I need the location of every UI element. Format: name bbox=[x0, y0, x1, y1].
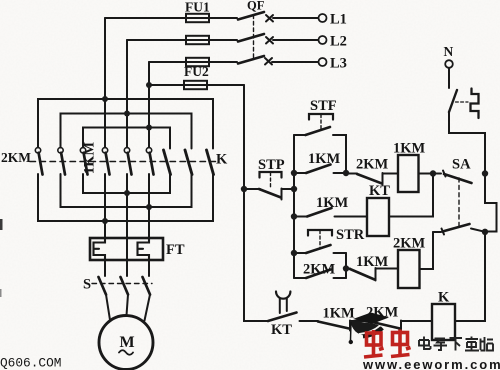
coil 2KM bbox=[398, 250, 420, 288]
svg-text:www.eeworm.com: www.eeworm.com bbox=[362, 357, 500, 370]
selector SA contact 1 blade bbox=[433, 173, 441, 175]
switch S blade A bbox=[99, 277, 107, 295]
svg-text:1KM: 1KM bbox=[308, 151, 341, 167]
wire FT to switch S (A) bbox=[104, 260, 106, 276]
button STF cap bbox=[309, 114, 333, 120]
node FU2 tap bbox=[146, 82, 152, 88]
switch S blade C bbox=[143, 277, 151, 295]
svg-text:2KM: 2KM bbox=[356, 157, 389, 173]
control left rail bbox=[244, 189, 268, 321]
row3 bottom branch (2KM self-hold) bbox=[294, 277, 306, 279]
node left rail STP bbox=[241, 186, 247, 192]
row1 top branch wire bbox=[294, 134, 306, 136]
contactor contact 2 (2KM) bbox=[58, 148, 63, 153]
svg-text:M: M bbox=[120, 334, 135, 351]
switch (N branch) operator symbol bbox=[471, 89, 479, 119]
wire phase A to FT bbox=[104, 174, 106, 238]
FT heater element (phase A) bbox=[94, 238, 106, 260]
node row1 parallel right bbox=[343, 170, 349, 176]
row2 wire from bus bbox=[294, 216, 307, 218]
selector SA linkage dashed bbox=[458, 178, 460, 226]
wire phase L1 line bbox=[105, 17, 237, 19]
wire phase L2 line bbox=[127, 39, 237, 41]
watermark graduation cap bbox=[349, 313, 389, 345]
wire phase A vertical bbox=[104, 18, 106, 148]
wire row3 output bbox=[346, 268, 350, 270]
wire inner bottom loop (contact3 to contact7) bbox=[83, 174, 170, 193]
terminal L2 bbox=[319, 36, 327, 44]
svg-text:2KM: 2KM bbox=[1, 150, 31, 165]
contactor contact 1 (2KM) bbox=[35, 148, 40, 153]
node right bus SA2 bbox=[482, 229, 488, 235]
switch S blade B bbox=[121, 277, 129, 295]
svg-text:2KM: 2KM bbox=[393, 236, 426, 252]
switch (N branch) linkage dashed bbox=[456, 101, 469, 103]
wire S to motor (C) bbox=[145, 295, 151, 321]
watermark chongchong character 2 bbox=[391, 330, 411, 357]
contact 1KM NC (row3) bbox=[350, 269, 375, 280]
contactor contact 3 (2KM) bbox=[80, 148, 85, 153]
wire phase C vertical bbox=[148, 62, 150, 148]
svg-text:FU2: FU2 bbox=[184, 64, 209, 79]
button STP NC contact bbox=[244, 188, 260, 190]
fuse FU1 (phase 2) bbox=[186, 36, 209, 44]
wire FT to switch S (B) bbox=[126, 260, 128, 276]
svg-text:Q606.COM: Q606.COM bbox=[0, 356, 61, 370]
contact 1KM (row2 NO) bbox=[307, 208, 332, 217]
node phase B / inner bottom loop bbox=[124, 190, 130, 196]
wire FU2 branch bbox=[149, 84, 244, 86]
terminal N bbox=[445, 60, 453, 68]
svg-text:1KM: 1KM bbox=[393, 141, 426, 157]
switch S linkage dashed bbox=[92, 283, 152, 285]
bottom rail wire bbox=[300, 320, 319, 322]
svg-text:STR: STR bbox=[336, 227, 365, 243]
contactor contact 9 (K) bbox=[207, 150, 214, 175]
contact 2KM NC (bottom row) bbox=[370, 322, 400, 329]
contactor contact 4 (1KM) bbox=[102, 148, 107, 153]
node phase A / outer loop bbox=[102, 96, 108, 102]
contact 2KM NC (row1) bbox=[346, 173, 357, 175]
fuse FU2 bbox=[184, 81, 207, 89]
wire 2KM coil output bbox=[420, 232, 434, 269]
svg-text:L1: L1 bbox=[330, 12, 347, 28]
wire middle top loop (contact2 to contact8) bbox=[61, 114, 192, 149]
wire to L2 bbox=[273, 39, 319, 41]
breaker QF pole 3 cross bbox=[265, 58, 272, 65]
svg-text:STF: STF bbox=[310, 98, 337, 114]
breaker QF pole 1 cross bbox=[266, 15, 273, 22]
contact 1KM NC (bottom row) bbox=[318, 322, 349, 329]
selector SA contact 2 blade bbox=[433, 231, 441, 233]
button STP cap bbox=[260, 172, 282, 178]
mechanical linkage dashed (main contacts) bbox=[30, 161, 218, 163]
breaker QF pole 3 blade bbox=[238, 56, 264, 64]
svg-text:L3: L3 bbox=[330, 56, 347, 72]
node phase A / outer bottom loop bbox=[102, 218, 108, 224]
svg-text:SA: SA bbox=[452, 157, 471, 173]
button STR contact blade bbox=[306, 245, 331, 253]
node row3 output bbox=[343, 265, 349, 271]
row3 block right vertical bbox=[345, 253, 347, 278]
switch (N branch) blade bbox=[449, 90, 457, 112]
svg-text:KT: KT bbox=[271, 322, 292, 338]
svg-text:2KM: 2KM bbox=[303, 262, 336, 278]
svg-text:1KM: 1KM bbox=[323, 306, 356, 322]
node feed bus row3 bbox=[291, 250, 297, 256]
svg-text:K: K bbox=[216, 152, 228, 168]
contactor contact 7 (K) bbox=[164, 150, 171, 175]
svg-text:QF: QF bbox=[247, 0, 265, 13]
wire N down bbox=[448, 68, 450, 88]
wire FT middle pass-through bbox=[126, 238, 128, 260]
wire outer bottom loop (contact1 to contact9) bbox=[38, 174, 213, 221]
svg-text:1KM: 1KM bbox=[316, 195, 349, 211]
contact KT delayed-close bbox=[268, 313, 297, 322]
wire STF right bbox=[333, 135, 346, 173]
wire phase B to FT bbox=[126, 174, 128, 238]
wire to L3 bbox=[272, 61, 319, 63]
coil 1KM bbox=[398, 155, 419, 192]
row1 bottom branch wire bbox=[294, 172, 306, 174]
node right bus SA1 bbox=[482, 170, 488, 176]
row3 top branch wire bbox=[294, 252, 306, 254]
svg-text:KT: KT bbox=[369, 183, 390, 199]
watermark text dianzi xiazaizhan bbox=[419, 337, 493, 351]
contact 2KM self-hold blade bbox=[306, 270, 331, 279]
breaker QF linkage dashed bbox=[253, 15, 255, 58]
wire N branch to right bus bbox=[449, 112, 485, 174]
terminal L3 bbox=[319, 58, 327, 66]
KT delay symbol (cup) bbox=[276, 292, 290, 299]
motor M circle bbox=[99, 316, 153, 370]
watermark chongchong character 1 bbox=[364, 330, 384, 357]
button STR cap bbox=[308, 230, 332, 236]
contact 1KM self-hold (NO) bbox=[306, 165, 331, 174]
button STR stem dashed bbox=[319, 231, 321, 250]
contactor contact 5 (1KM) bbox=[124, 148, 129, 153]
control feed bus bbox=[293, 135, 295, 278]
svg-text:L2: L2 bbox=[330, 34, 347, 50]
node SA common bbox=[430, 170, 436, 176]
svg-text:S: S bbox=[83, 277, 91, 293]
right bus with jog bbox=[455, 174, 497, 322]
wire inner top loop (contact3 to contact7) bbox=[83, 128, 170, 149]
wire FT to switch S (C) bbox=[148, 260, 150, 276]
wire S to motor (A) bbox=[106, 295, 110, 321]
wire S to motor (B) bbox=[127, 295, 129, 316]
wire STP to feed bus bbox=[282, 188, 295, 190]
contactor contact 6 (1KM) bbox=[146, 148, 151, 153]
node feed bus row2 bbox=[291, 213, 297, 219]
svg-text:FU1: FU1 bbox=[185, 0, 210, 15]
breaker QF pole 1 blade bbox=[238, 12, 264, 20]
svg-text:FT: FT bbox=[166, 242, 185, 258]
wire phase B vertical bbox=[126, 40, 128, 148]
button STF stem dashed bbox=[320, 115, 322, 132]
breaker QF pole 2 blade bbox=[238, 34, 264, 42]
button STF contact blade bbox=[306, 127, 331, 135]
node feed bus STP bbox=[291, 186, 297, 192]
node phase B / middle loop bbox=[124, 111, 130, 117]
node phase C / inner loop bbox=[146, 125, 152, 131]
wire phase L3 line bbox=[149, 61, 237, 63]
wire KT coil output bbox=[389, 174, 433, 217]
thermal relay FT box bbox=[90, 238, 163, 260]
node feed bus row1 bbox=[291, 170, 297, 176]
FT heater element (phase C) bbox=[138, 238, 150, 260]
node phase C / middle bottom loop bbox=[146, 204, 152, 210]
button STP stem dashed bbox=[270, 173, 272, 189]
fuse FU1 (phase 1) bbox=[186, 14, 209, 22]
wire 1KM coil to SA node bbox=[419, 173, 434, 175]
fuse FU1 (phase 3) bbox=[186, 58, 209, 66]
wire phase C to FT bbox=[148, 174, 150, 238]
wire middle bottom loop (contact2 to contact8) bbox=[61, 174, 192, 207]
svg-text:N: N bbox=[444, 44, 454, 59]
wire control feed drop bbox=[243, 85, 245, 189]
scan smudge left edge bbox=[0, 219, 3, 230]
coil K bbox=[432, 304, 455, 340]
contactor contact 8 (K) bbox=[185, 150, 192, 175]
breaker QF pole 2 cross bbox=[266, 37, 273, 44]
terminal L1 bbox=[319, 14, 327, 22]
svg-text:1KM: 1KM bbox=[356, 254, 389, 270]
svg-text:STP: STP bbox=[258, 157, 285, 173]
wire outer top loop (contact1 to contact9) bbox=[38, 99, 213, 149]
coil KT bbox=[367, 198, 389, 236]
motor tilde symbol bbox=[119, 350, 133, 355]
wire to L1 bbox=[273, 17, 319, 19]
